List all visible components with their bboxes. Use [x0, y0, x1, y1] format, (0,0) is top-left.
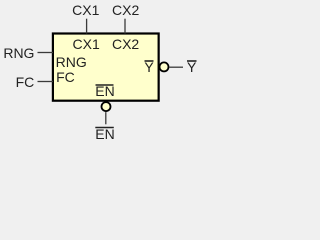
svg-text:CX2: CX2	[112, 36, 139, 52]
wire pin Y	[170, 66, 184, 68]
svg-text:FC: FC	[16, 74, 35, 90]
svg-text:CX2: CX2	[112, 2, 139, 18]
overline for outside EN	[95, 127, 114, 129]
overline for outside Y	[187, 60, 197, 62]
svg-text:CX1: CX1	[73, 36, 100, 52]
wire pin CX2	[124, 19, 126, 34]
wire pin CX1	[86, 19, 88, 34]
wire pin EN	[105, 112, 107, 124]
svg-text:RNG: RNG	[3, 45, 34, 61]
svg-text:CX1: CX1	[72, 2, 99, 18]
wire pin FC	[38, 81, 54, 83]
inversion bubble EN	[102, 102, 111, 111]
wire pin RNG	[38, 52, 54, 54]
svg-text:RNG: RNG	[56, 54, 87, 70]
overline for inside Y	[145, 60, 154, 62]
svg-text:EN: EN	[95, 126, 114, 142]
inversion bubble output Y	[160, 62, 169, 71]
IC body U1	[53, 34, 159, 101]
overline for inside EN	[96, 84, 114, 86]
svg-text:FC: FC	[56, 69, 75, 85]
